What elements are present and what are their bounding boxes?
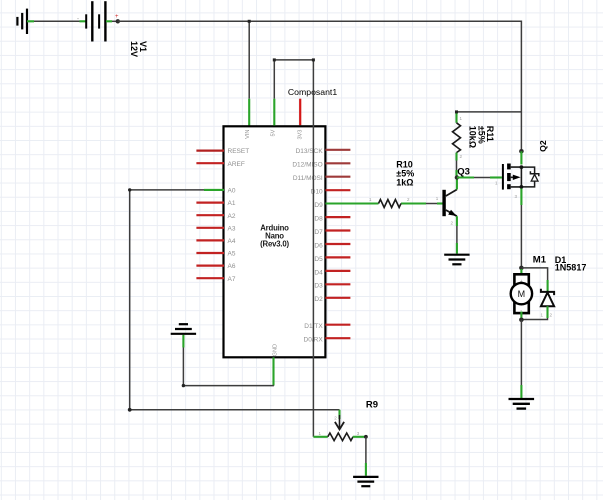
svg-text:M1: M1 [533,254,547,265]
junction R9 pin3 [364,435,368,439]
svg-text:RESET: RESET [228,148,250,155]
ground (R9) [353,477,378,486]
mosfet Q2 [502,164,539,190]
battery V1 [77,1,119,41]
svg-text:A1: A1 [228,200,236,207]
ground (battery negative) [17,9,27,34]
svg-text:A0: A0 [228,188,236,195]
svg-text:GND: GND [272,344,278,356]
motor M1 [511,269,532,319]
svg-text:R9: R9 [366,400,378,411]
wire: R9 pin3 to ground [365,437,367,476]
arduino nano pin labels [228,129,324,356]
svg-text:A7: A7 [228,276,236,283]
wire: VIN branch [248,20,251,126]
svg-text:Composant1: Composant1 [288,87,337,97]
wire: gate node to Q2 gate [457,178,502,186]
junction gate node [455,175,459,179]
svg-text:10kΩ: 10kΩ [468,126,478,148]
wire: +12V top rail [118,21,522,151]
wire: D9 to R10 [325,202,442,204]
svg-text:D13/SCK: D13/SCK [296,148,324,155]
svg-text:Q2: Q2 [538,140,548,152]
arduino nano U1 body [224,126,326,357]
svg-text:12V: 12V [129,41,139,57]
svg-text:A2: A2 [228,213,236,220]
wire: Composant1 to 3V3 (red) [299,99,301,126]
wire: A0 to R9 wiper net [128,188,340,411]
wire: Q3 collector up to gate node [456,178,458,190]
wire: Q2 source down to motor [515,189,522,268]
wire: IC GND net [182,335,274,388]
wire: motor bottom to ground [520,320,522,398]
svg-text:Q3: Q3 [457,166,470,177]
svg-text:1kΩ: 1kΩ [396,177,413,187]
svg-text:5V: 5V [270,129,276,136]
svg-text:D7: D7 [314,229,323,236]
junction motor bottom node [519,318,524,323]
svg-text:D4: D4 [314,269,323,276]
svg-text:D2: D2 [314,296,323,303]
svg-text:+: + [115,14,119,20]
potentiometer R9 [319,410,366,441]
diode D1 [521,280,554,320]
label Arduino Nano (Rev3.0) [260,223,289,248]
svg-text:D8: D8 [314,216,323,223]
label R10 value [396,160,414,188]
junction Q2 drain wire node [519,149,524,154]
label V1 12V [129,41,148,57]
svg-text:D12/MISO: D12/MISO [292,162,322,169]
svg-text:D9: D9 [314,202,323,209]
ground (Q3 emitter) [444,255,469,265]
ground (motor/D1) [509,399,535,409]
wire: Q3 emitter to ground [451,216,457,254]
junction motor top node [519,266,524,271]
svg-text:M: M [518,289,526,299]
wire: R11 top to +12V rail [455,110,521,113]
svg-text:D5: D5 [314,256,323,263]
svg-text:A3: A3 [228,225,236,232]
svg-text:D6: D6 [314,242,323,249]
svg-text:-: - [77,17,79,23]
arduino nano left pins [196,151,224,279]
svg-text:(Rev3.0): (Rev3.0) [260,239,289,248]
wire: 5V branch to R9 pin1 [273,58,328,436]
resistor R11 [453,112,463,178]
wire: drain stub [520,151,522,164]
label R11 value [468,126,496,148]
ground (IC GND, flipped) [171,324,196,334]
resistor R10 [369,197,410,208]
svg-text:D10: D10 [311,189,323,196]
svg-text:AREF: AREF [228,161,245,168]
svg-text:A6: A6 [228,263,236,270]
wire: ground to battery V1 [27,20,86,22]
label D1 1N5817 [555,255,587,272]
svg-text:D11/MOSI: D11/MOSI [293,175,323,182]
svg-text:A4: A4 [228,238,236,245]
junction V1 positive node [116,19,120,23]
svg-text:1N5817: 1N5817 [555,262,587,272]
arduino nano right pins [325,150,350,338]
svg-text:D3: D3 [314,283,323,290]
wire: motor top to D1 cathode branch [521,268,547,280]
svg-text:VIN: VIN [245,130,251,139]
svg-text:3V3: 3V3 [298,130,304,140]
transistor Q3 [436,190,457,217]
svg-text:A5: A5 [228,251,236,258]
